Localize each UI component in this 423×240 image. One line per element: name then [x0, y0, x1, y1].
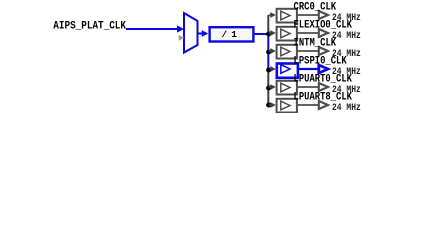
svg-text:INTM_CLK: INTM_CLK	[294, 38, 337, 50]
svg-text:LPUART0_CLK: LPUART0_CLK	[294, 74, 353, 86]
svg-text:LPSPI0_CLK: LPSPI0_CLK	[294, 56, 348, 68]
svg-text:24 MHz: 24 MHz	[332, 103, 361, 113]
svg-text:/ 1: / 1	[222, 29, 238, 40]
svg-text:CRC0_CLK: CRC0_CLK	[294, 2, 337, 14]
svg-text:24 MHz: 24 MHz	[332, 31, 361, 42]
svg-text:FLEXIO0_CLK: FLEXIO0_CLK	[294, 20, 353, 32]
svg-text:AIPS_PLAT_CLK: AIPS_PLAT_CLK	[53, 20, 126, 32]
svg-text:LPUART8_CLK: LPUART8_CLK	[294, 92, 353, 104]
